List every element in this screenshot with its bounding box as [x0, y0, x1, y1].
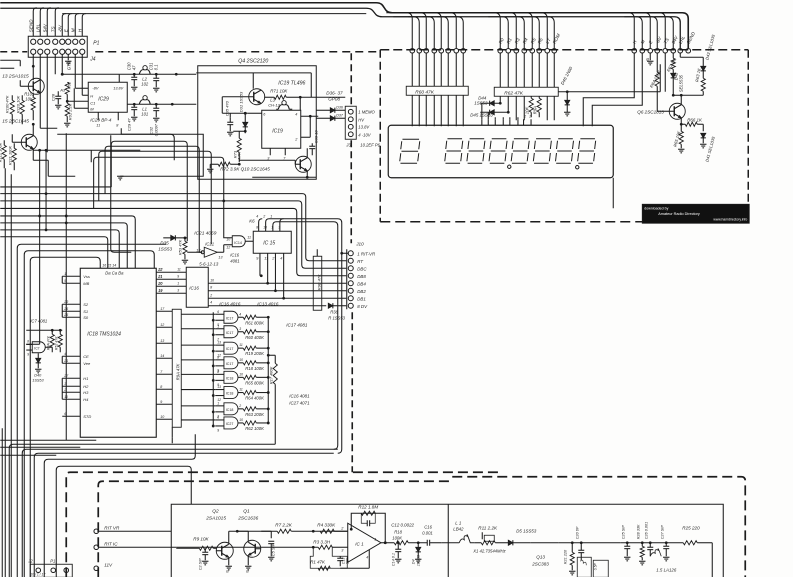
wire data bus 5: [512, 13, 532, 49]
wire bus bottom horiz1: [0, 439, 96, 441]
wire Q2 emitter gnd: [228, 558, 230, 566]
capacitor C26 0.001: [649, 543, 651, 548]
wire net LRL drop: [679, 53, 681, 57]
svg-text:X1 42.73544MHz: X1 42.73544MHz: [472, 548, 506, 553]
resistor R9B 10K: [537, 98, 541, 112]
wire ctrl bus 2: [624, 17, 642, 49]
wire IC18 pin STD: [62, 415, 80, 417]
wire IC14 in2: [223, 245, 225, 253]
wire display data stub 6: [517, 119, 519, 125]
resistor R61 2.2K: [65, 103, 69, 116]
svg-text:R61 2.2K: R61 2.2K: [67, 103, 72, 120]
wire mid vertical x46: [45, 150, 47, 230]
svg-text:R9 10K: R9 10K: [193, 536, 209, 541]
wire K6 return a: [22, 449, 338, 577]
svg-text:C12 0.0022: C12 0.0022: [391, 522, 414, 527]
wire IC18 pin S0: [62, 316, 80, 318]
wire bus vertical xb: [10, 174, 12, 577]
terminal J10 pin 5: [348, 281, 353, 286]
svg-text:47: 47: [131, 65, 136, 70]
svg-text:R9A 47K: R9A 47K: [46, 335, 50, 350]
svg-text:-8V: -8V: [92, 85, 99, 90]
terminal data bus 1: [498, 48, 503, 53]
svg-text:C20 6P: C20 6P: [575, 526, 579, 539]
svg-text:IC 1: IC 1: [355, 541, 364, 546]
wire display data stub 7: [523, 119, 525, 125]
wire bus y250 corner: [24, 251, 154, 577]
svg-text:J10: J10: [355, 241, 364, 246]
wire anode 2 lower: [418, 95, 420, 126]
wire display bus 1: [386, 13, 412, 49]
wire IC18 pin H4: [62, 398, 80, 400]
svg-text:20: 20: [157, 282, 162, 286]
decimal point a: [508, 165, 511, 168]
svg-text:LB42: LB42: [453, 526, 464, 531]
resistor R21 220: [571, 543, 573, 553]
svg-text:D5 1SS53: D5 1SS53: [516, 528, 537, 533]
svg-text:R28 33K: R28 33K: [636, 524, 640, 539]
svg-text:C16: C16: [424, 524, 432, 529]
wire Q4 base feed: [222, 96, 249, 98]
wire gate rail to left: [9, 444, 275, 577]
transformer can 1: [577, 557, 591, 577]
wire anode 1 lower: [411, 95, 413, 126]
terminal J4 pin 7: [73, 49, 78, 54]
wire anode 3: [425, 53, 427, 86]
svg-text:1 MEMO: 1 MEMO: [358, 109, 375, 114]
wire ctrl bus 5: [647, 13, 665, 49]
svg-text:IC21: IC21: [205, 241, 214, 246]
svg-text:8: 8: [217, 355, 219, 359]
wire IC18 out pin 10: [156, 418, 172, 420]
wire corner y459: [44, 434, 195, 577]
wire data bus 8: [534, 17, 554, 49]
digit 3: [467, 139, 485, 164]
wire P1 E riser: [68, 14, 72, 37]
and gate IC17 unit 4: [224, 357, 238, 369]
svg-text:IC17: IC17: [226, 362, 234, 366]
wire corner bundle top: [121, 128, 174, 160]
wire J10 pin1 link: [342, 252, 349, 254]
wire R17 branch: [268, 354, 275, 356]
wire ground loop: [57, 134, 203, 176]
svg-text:10: 10: [263, 225, 267, 229]
wire IC18 out pin 9: [156, 403, 172, 405]
wire IC18 out pin 8: [156, 388, 172, 390]
module box bottom: [171, 504, 723, 577]
svg-text:Da Ca Ba: Da Ca Ba: [105, 270, 124, 275]
svg-text:IC7 4081: IC7 4081: [30, 318, 47, 323]
inductor L1 101: [139, 100, 144, 105]
wire J4 col1 to Q3: [32, 54, 34, 66]
wire IC29 H lead: [82, 94, 88, 96]
wire RIT VR: [98, 530, 171, 532]
module box Q4: [198, 66, 317, 180]
svg-text:11: 11: [177, 267, 181, 271]
board boundary dashed vertical x=352 lower: [351, 312, 353, 472]
svg-text:R9A: R9A: [532, 106, 537, 114]
capacitor C20 6P: [580, 543, 582, 551]
svg-text:C2 SIP: C2 SIP: [198, 558, 202, 570]
terminal data bus 5: [530, 48, 535, 53]
transistor Q4: [249, 89, 265, 105]
svg-text:S1: S1: [83, 309, 88, 314]
diode D46 1N60: [566, 92, 568, 101]
wire bus chain4: [111, 141, 187, 241]
diode D40 1SS53: [37, 353, 39, 358]
svg-text:M: M: [70, 28, 75, 32]
resistor R110 10K: [20, 100, 24, 114]
svg-text:K6: K6: [249, 218, 255, 223]
terminal data bus 8: [552, 48, 557, 53]
digit 1: [400, 139, 420, 163]
resistor R52 47K v: [59, 330, 61, 334]
svg-text:MB: MB: [83, 281, 89, 286]
svg-text:TS: TS: [50, 25, 55, 32]
svg-text:GP08: GP08: [328, 96, 340, 101]
svg-text:DB8: DB8: [357, 274, 366, 279]
svg-text:2: 2: [523, 114, 526, 118]
wire data link a: [481, 103, 483, 119]
transistor Q5 2SC1645: [21, 134, 37, 150]
wire IC15 pin11: [267, 253, 269, 283]
svg-text:RIT VR: RIT VR: [104, 525, 120, 530]
capacitor C25 SIP: [626, 543, 628, 547]
svg-text:IC17 4081: IC17 4081: [286, 322, 308, 327]
svg-text:6: 6: [64, 412, 66, 416]
svg-text:11: 11: [96, 123, 100, 127]
wire J4 col8 down: [81, 54, 83, 74]
diode R38 1SS53: [328, 303, 333, 308]
wire anode 5: [440, 53, 442, 86]
diode D43 SEL1035 led: [702, 57, 704, 66]
and gate IC18 unit 6: [224, 387, 238, 399]
svg-text:14: 14: [160, 354, 164, 358]
terminal J10 pin 3: [348, 266, 353, 271]
wire IC16 out 8 / bus DB2: [208, 290, 346, 292]
wire display bus 8: [437, 17, 463, 49]
svg-text:R62: R62: [66, 81, 71, 89]
svg-text:8: 8: [160, 385, 162, 389]
and gate IC7: [32, 342, 45, 353]
svg-text:R112 100K: R112 100K: [0, 142, 2, 162]
svg-text:IC18 TMS1024: IC18 TMS1024: [87, 331, 121, 337]
wire P1 M riser: [75, 14, 79, 37]
svg-text:IC16: IC16: [189, 285, 199, 290]
svg-text:S2: S2: [83, 302, 89, 307]
svg-text:2: 2: [209, 293, 212, 297]
svg-text:8: 8: [256, 225, 258, 229]
svg-text:downloaded by: downloaded by: [644, 206, 668, 210]
svg-text:1SV89: 1SV89: [416, 554, 420, 566]
resistor R73 4.7K: [238, 131, 240, 138]
svg-text:13: 13: [160, 339, 164, 343]
diode D45 1SS53: [490, 110, 495, 115]
wire display data stub 8: [530, 119, 532, 125]
digit 2: [445, 139, 463, 164]
svg-text:21: 21: [63, 359, 68, 363]
board dashed corner B: [98, 481, 452, 577]
terminal J3 pin3: [348, 124, 353, 129]
wire IC19 bottom pins: [269, 148, 271, 155]
svg-text:6: 6: [217, 310, 219, 314]
wire IC18 pin S1: [62, 310, 80, 312]
svg-text:R62 100K: R62 100K: [245, 426, 264, 431]
svg-text:IC17: IC17: [226, 347, 234, 351]
wire anode 4 lower: [433, 95, 435, 126]
svg-text:4: 4: [280, 256, 282, 260]
ic IC18 TMS1024 box: [80, 268, 156, 437]
wire RIT IC: [98, 546, 176, 548]
wire data drop joins: [515, 96, 517, 120]
wire P1 SEND riser: [33, 8, 37, 37]
wire IC18 left links: [61, 276, 63, 283]
wire display data stub 1: [481, 119, 483, 125]
diode D42 SEL5535 led: [672, 69, 674, 73]
svg-text:L 1: L 1: [455, 520, 462, 525]
svg-text:C28: C28: [50, 93, 55, 101]
terminal P1 pin 5: [60, 39, 65, 44]
terminal J4 pin 2: [38, 49, 43, 54]
resistor R28 33K: [641, 543, 643, 547]
wire long vertical x66: [65, 133, 67, 440]
capacitor C27 SIP: [665, 543, 667, 547]
svg-text:R62 47K: R62 47K: [504, 90, 523, 96]
wire anode 8 lower: [462, 95, 464, 126]
svg-text:1: 1: [177, 281, 179, 285]
terminal J3 pin4: [348, 132, 353, 137]
svg-text:3: 3: [239, 327, 241, 331]
svg-text:2: 2: [238, 404, 241, 408]
diode D4 1SV89: [417, 543, 419, 548]
svg-text:R17 480K: R17 480K: [268, 366, 273, 384]
terminal display bus 2: [417, 48, 422, 53]
svg-text:www.hamdirectory.info: www.hamdirectory.info: [713, 217, 747, 221]
terminal P1 pin 2: [38, 39, 43, 44]
svg-text:H4: H4: [83, 397, 89, 402]
wire Q5 base: [12, 141, 21, 143]
svg-text:2SA1015: 2SA1015: [205, 515, 226, 521]
wire anode 8: [462, 53, 464, 86]
svg-text:J2: J2: [27, 558, 33, 563]
svg-text:DBC: DBC: [357, 266, 367, 271]
svg-text:D4: D4: [411, 559, 415, 564]
svg-text:9: 9: [177, 274, 179, 278]
svg-text:10 / 1 / 17: 10 / 1 / 17: [30, 572, 45, 576]
svg-text:B: B: [646, 56, 649, 61]
terminal P1 pin 6: [66, 39, 71, 44]
wire IC29 bottom pins: [97, 112, 99, 120]
terminal RIT IC: [94, 545, 99, 550]
svg-text:IC27 4071: IC27 4071: [289, 400, 310, 405]
svg-text:4: 4: [256, 214, 258, 218]
svg-text:11: 11: [239, 388, 243, 392]
capacitor C-fb: [361, 513, 367, 523]
wire data 7 drop: [546, 53, 548, 87]
wire bus chain3: [105, 146, 202, 252]
digit 6: [533, 139, 551, 164]
wire Q5 emitter down: [32, 149, 34, 160]
svg-text:D40: D40: [34, 373, 42, 377]
diode D44 1SS53: [490, 101, 495, 106]
wire data bus 3: [496, 13, 516, 49]
terminal display bus 1: [410, 48, 415, 53]
svg-text:11V: 11V: [104, 562, 113, 567]
wire display bus 2: [393, 17, 419, 49]
digit 7: [556, 139, 574, 164]
wire data 3 drop: [515, 53, 517, 87]
svg-text:11: 11: [239, 343, 243, 347]
svg-text:11: 11: [247, 235, 251, 239]
wire IC18 pin MB: [62, 282, 80, 284]
svg-text:IC29 BP-4: IC29 BP-4: [90, 117, 112, 122]
svg-text:RT: RT: [357, 259, 363, 264]
svg-text:1: 1: [217, 324, 219, 328]
svg-text:C14 0.1: C14 0.1: [391, 553, 395, 566]
wire bus y208 to J10 DB8: [0, 208, 346, 275]
wire data 8 drop: [553, 53, 555, 87]
wire bus y186 entry: [0, 186, 111, 188]
svg-text:R25 220: R25 220: [682, 525, 700, 530]
svg-text:13: 13: [217, 341, 221, 345]
wire IC18 out pin 7: [156, 373, 172, 375]
display board border right: [747, 50, 749, 222]
inductor bottom coil: [650, 549, 661, 557]
svg-text:R4 330K: R4 330K: [317, 522, 336, 527]
terminal display bus 3: [424, 48, 429, 53]
svg-text:4: 4: [64, 352, 66, 356]
diode D5 1SS53: [508, 540, 513, 545]
wire bus y222: [0, 223, 127, 268]
svg-text:DB1: DB1: [357, 296, 366, 301]
svg-text:Vee: Vee: [83, 361, 91, 366]
wire P1 54V riser: [47, 8, 51, 37]
resistor network R62 47K: [494, 87, 558, 96]
resistor R100 47K: [10, 100, 14, 114]
transistor Q10 2SC1645: [295, 156, 311, 172]
op amp IC1: [348, 523, 381, 562]
terminal P1 pin 3: [45, 39, 50, 44]
svg-text:2: 2: [528, 114, 531, 118]
connector K6 hook 1: [259, 219, 263, 232]
terminal display bus 7: [454, 48, 459, 53]
svg-text:54V: 54V: [42, 23, 47, 32]
terminal RIT VR: [94, 529, 99, 534]
wire IC18 out pin 13: [156, 342, 172, 344]
svg-text:R12 1.8M: R12 1.8M: [358, 504, 378, 509]
wire anode 4: [433, 53, 435, 86]
svg-text:2: 2: [63, 388, 66, 392]
wire anode 6 lower: [447, 95, 449, 126]
crystal X1: [484, 535, 494, 541]
terminal ctrl bus 6: [671, 48, 676, 53]
resistor R9A 10K: [529, 98, 533, 112]
wire gate input feeds: [181, 313, 215, 315]
svg-text:9: 9: [160, 400, 162, 404]
wire anode 3 lower: [425, 95, 427, 126]
board dashed bottom right: [452, 477, 745, 577]
wire ctrl bus 1: [616, 13, 634, 49]
svg-text:R111 100K: R111 100K: [7, 145, 12, 165]
svg-text:102: 102: [141, 81, 149, 86]
svg-text:J3: J3: [345, 142, 351, 147]
resistor R63 200K: [243, 407, 256, 411]
svg-text:3: 3: [177, 288, 179, 292]
svg-text:10K: 10K: [524, 107, 529, 115]
svg-text:1SS53: 1SS53: [474, 100, 488, 105]
wire osc out: [530, 542, 558, 544]
svg-text:101: 101: [141, 111, 148, 116]
wire display data stub 4: [502, 119, 504, 125]
wire to D36: [316, 109, 330, 111]
svg-text:IC 15: IC 15: [263, 240, 275, 246]
wire display bus 7: [430, 13, 456, 49]
svg-text:1.5 LA126: 1.5 LA126: [656, 567, 677, 572]
wire left rail1: [0, 59, 20, 61]
svg-text:3: 3: [278, 225, 280, 229]
ic IC29 box: [88, 82, 127, 112]
inductor L2 102: [139, 70, 144, 75]
wire opamp in2: [334, 530, 348, 532]
terminal ctrl bus 3: [648, 48, 653, 53]
wire P1 H riser: [82, 14, 86, 37]
wire bus chain1: [94, 157, 233, 238]
svg-text:D35: D35: [160, 240, 169, 245]
svg-text:C27 SIP: C27 SIP: [660, 525, 664, 540]
wire net -8V drop: [656, 53, 658, 72]
terminal display bus 8: [461, 48, 466, 53]
wire q5 line y150: [33, 149, 140, 151]
svg-text:IC18: IC18: [226, 392, 234, 396]
svg-text:H1: H1: [83, 376, 88, 381]
wire IC18 pin H3: [62, 391, 80, 393]
svg-text:23: 23: [63, 300, 68, 304]
svg-text:D31 1SS53: D31 1SS53: [238, 91, 243, 112]
svg-text:C35 470: C35 470: [224, 100, 229, 116]
wire IC18 out pin 12: [156, 326, 172, 328]
wire IC16 in 19: [156, 292, 186, 294]
svg-text:10: 10: [226, 237, 230, 241]
connector K6 hook 2: [266, 219, 342, 454]
svg-text:3: 3: [64, 382, 66, 386]
wire Q6 emitter: [680, 118, 682, 124]
svg-text:IC16 4081: IC16 4081: [289, 393, 310, 398]
transistor Q6 2SC1815: [669, 103, 685, 119]
credit box Amateur Radio Directory: [642, 204, 749, 223]
resistor network R60 47K: [406, 86, 468, 95]
wire IC15 pin9: [259, 253, 261, 276]
svg-text:1: 1: [217, 401, 219, 405]
svg-text:Q4 2SC2120: Q4 2SC2120: [238, 58, 268, 64]
wire Q6 collector: [673, 94, 681, 96]
svg-text:C29 47: C29 47: [126, 118, 131, 132]
wire P1 TS riser: [55, 8, 59, 37]
svg-text:CE: CE: [83, 354, 89, 359]
svg-text:1SS53: 1SS53: [158, 246, 172, 251]
digit 5: [511, 139, 529, 164]
wire IC19 pin2 out: [301, 136, 311, 138]
svg-text:R72 3.9K Q10 2SC1645: R72 3.9K Q10 2SC1645: [220, 166, 270, 171]
transistor Q1 2SC1636: [244, 540, 261, 557]
capacitor C32 0.0097: [155, 104, 157, 108]
wire IC29 top rail: [62, 73, 119, 75]
svg-text:IC16 4016: IC16 4016: [219, 301, 241, 306]
ic IC16 box: [186, 267, 208, 307]
wire bus vertical xa: [4, 168, 6, 577]
terminal J10 pin 4: [348, 273, 353, 278]
svg-text:19: 19: [158, 289, 162, 293]
svg-text:IC18: IC18: [226, 408, 234, 412]
